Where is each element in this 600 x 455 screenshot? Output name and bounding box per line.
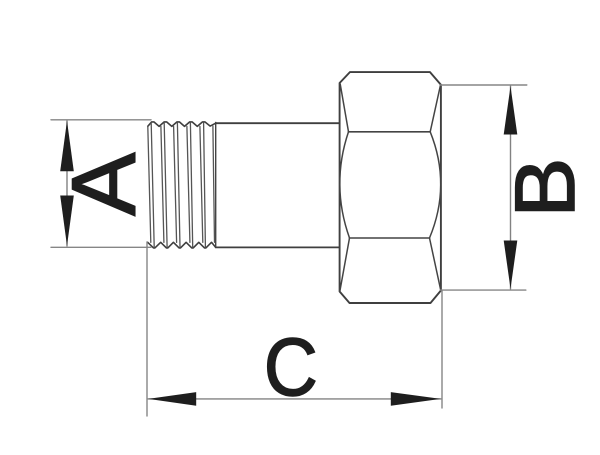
dimension A down arrowhead [60,196,74,246]
hex left middle-face arc [340,132,350,238]
dimension A bottom extension line [51,246,151,248]
hex right middle-face arc [430,132,441,238]
body top line [216,122,340,124]
hex bottom-right face diagonal [430,238,441,290]
svg-text:B: B [499,157,592,217]
dimension C left extension line [146,242,148,416]
hex top-right face diagonal [430,85,440,132]
thread crest lines [148,123,215,247]
thread bottom zigzag [148,242,216,248]
dimension B line [510,86,512,289]
svg-text:A: A [53,152,154,215]
dimension B down arrowhead [504,241,518,289]
dimension A up arrowhead [60,121,74,171]
hex top-left face diagonal [340,84,348,132]
dimension C right arrowhead [391,392,441,406]
svg-text:C: C [264,321,318,413]
label B [499,157,592,217]
body bottom line [216,246,340,248]
hex nut silhouette [340,72,441,303]
thread top zigzag [148,122,216,127]
hex bottom-left face diagonal [340,238,350,292]
label C [264,321,318,413]
label A [53,152,154,215]
dimension C left arrowhead [148,392,196,406]
dimension B top extension line [441,84,527,86]
dimension C right extension line [441,291,443,409]
dimension B bottom extension line [441,289,526,291]
hex bottom face boundary [350,237,430,239]
thread-body boundary [215,123,217,248]
hex top face boundary [349,131,431,133]
dimension B up arrowhead [504,86,518,134]
dimension C line [148,398,441,400]
dimension A line [66,121,68,246]
dimension A top extension line [51,119,151,121]
